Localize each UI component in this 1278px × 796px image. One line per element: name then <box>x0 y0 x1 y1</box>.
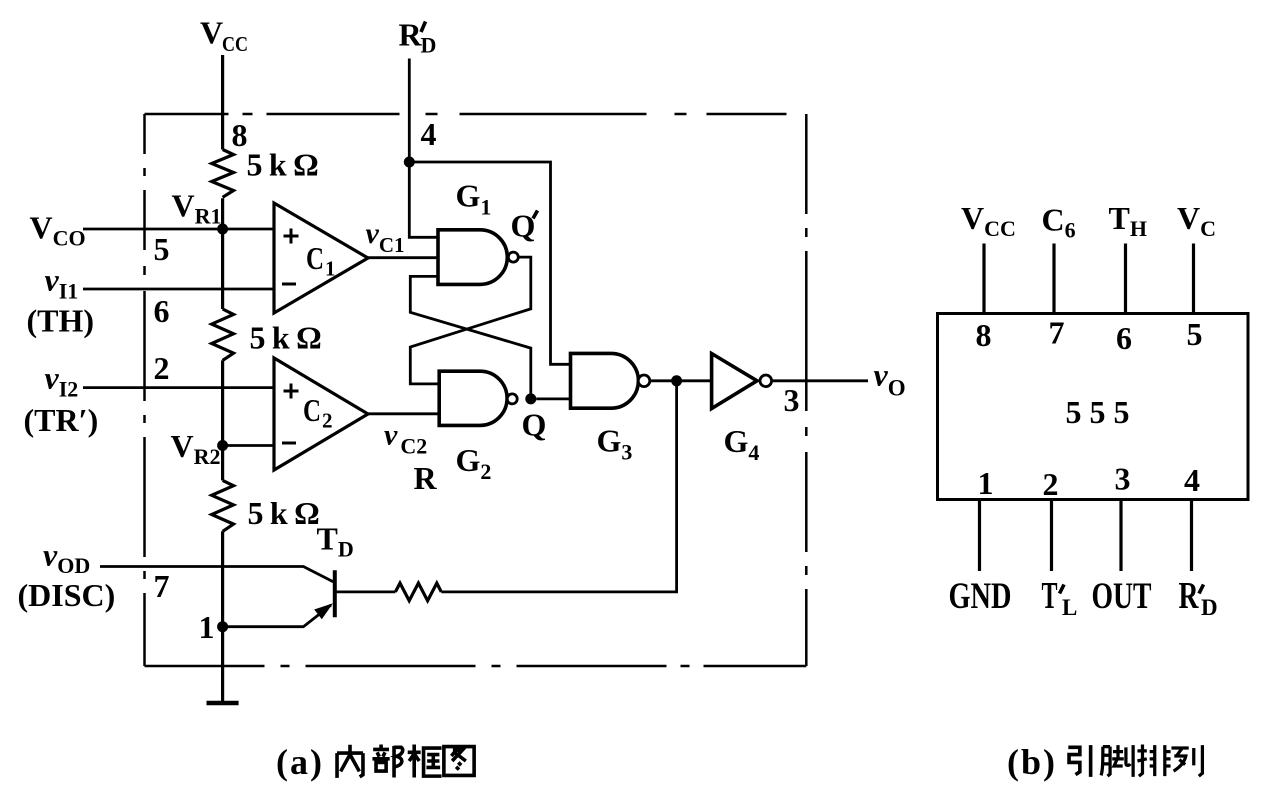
svg-text:2: 2 <box>154 350 170 386</box>
svg-text:D: D <box>421 33 437 58</box>
C6 pin label <box>1042 202 1076 243</box>
pin 2 label <box>154 350 170 386</box>
svg-text:T: T <box>1042 575 1058 617</box>
pin number 2 <box>1043 466 1059 502</box>
caption (b) CJK jiao <box>1101 745 1133 777</box>
pin 1 emitter wire <box>223 605 331 627</box>
output wire vO <box>771 379 868 382</box>
pin 4 stub <box>1190 500 1193 572</box>
caption (a) CJK nei <box>337 745 363 778</box>
GND pin label <box>949 576 1012 617</box>
pin number 6 <box>1116 320 1132 356</box>
vC2 label <box>384 419 427 459</box>
G4 label <box>724 423 760 465</box>
vOD label <box>43 537 90 579</box>
svg-text:5: 5 <box>154 231 170 267</box>
pin number 5 <box>1187 316 1203 352</box>
svg-text:(TR′): (TR′) <box>24 402 99 438</box>
resistor R1 value 5 kOhm <box>247 147 319 183</box>
TD label <box>317 521 354 562</box>
pin 1 label <box>199 609 215 645</box>
C2 plus sign <box>284 384 299 399</box>
G3 output bubble <box>638 375 650 387</box>
pin 7 stub <box>1052 244 1055 314</box>
VR2 to C2 wire <box>223 444 274 447</box>
VCC pin label <box>961 200 1016 241</box>
(TH) label <box>27 303 95 339</box>
svg-text:OUT: OUT <box>1092 576 1152 617</box>
RD' top label <box>399 17 437 58</box>
G2 label <box>456 442 492 484</box>
resistor R1 <box>212 150 234 198</box>
caption (a) CJK tu <box>444 747 474 776</box>
svg-text:5 5 5: 5 5 5 <box>1066 394 1130 430</box>
caption (a) prefix <box>276 742 324 782</box>
svg-text:8: 8 <box>976 317 992 353</box>
pin 5 label <box>154 231 170 267</box>
svg-text:6: 6 <box>1116 320 1132 356</box>
nand gate G2 <box>439 371 507 425</box>
svg-text:4: 4 <box>1184 462 1200 498</box>
svg-text:4: 4 <box>421 116 437 152</box>
resistor R3 value 5 kOhm <box>248 495 320 531</box>
vI1 label <box>45 262 79 304</box>
svg-text:CC: CC <box>222 32 248 56</box>
pin number 3 <box>1115 461 1131 497</box>
C1 minus sign <box>282 283 296 286</box>
pin 7 label <box>154 568 170 604</box>
pin 6 label <box>154 293 170 329</box>
pin number 8 <box>976 317 992 353</box>
resistor R3 <box>212 480 234 531</box>
svg-text:R: R <box>399 17 423 53</box>
pin 3 label <box>784 382 800 418</box>
node VR2 junction <box>217 440 228 451</box>
svg-text:(TH): (TH) <box>27 303 95 339</box>
base lead wire <box>337 591 396 594</box>
(TR') label <box>24 402 99 438</box>
pin 7 wire and collector <box>100 567 333 582</box>
comparator C1 <box>274 203 368 313</box>
svg-text:Q: Q <box>511 208 536 244</box>
inverter G4 <box>712 354 757 409</box>
C2 label <box>303 392 333 433</box>
svg-text:3: 3 <box>1115 461 1131 497</box>
node VR1 junction <box>217 224 228 235</box>
svg-text:(a): (a) <box>276 742 324 782</box>
svg-text:(b): (b) <box>1007 742 1057 782</box>
node VR1 label <box>172 188 222 229</box>
svg-text:R: R <box>414 460 438 496</box>
G3 output wire <box>649 379 711 382</box>
svg-text:1: 1 <box>199 609 215 645</box>
C2 minus sign <box>282 442 296 445</box>
VCC supply rail wire <box>221 55 224 702</box>
pin number 4 <box>1184 462 1200 498</box>
G1 label <box>456 178 492 220</box>
Q cross-coupled wire to G1 <box>410 276 531 399</box>
vC1 label <box>366 217 405 257</box>
VCO label <box>30 210 86 251</box>
ground <box>207 701 239 706</box>
comparator C2 <box>274 358 368 470</box>
caption (a) CJK kuang <box>408 744 442 777</box>
base resistor <box>395 583 441 601</box>
node Q junction <box>525 393 536 404</box>
resistor R2 value 5 kOhm <box>250 320 322 356</box>
VC pin label <box>1177 200 1216 241</box>
pin 5 stub <box>1192 244 1195 314</box>
vC2 output wire <box>368 412 439 415</box>
Q' cross-coupled wire to G2 <box>410 257 531 384</box>
555 package box <box>938 314 1249 500</box>
svg-text:L: L <box>1062 595 1077 620</box>
svg-text:1: 1 <box>978 465 994 501</box>
C1 label <box>306 240 336 281</box>
svg-text:3: 3 <box>784 382 800 418</box>
vO label <box>874 357 906 401</box>
G4 output bubble <box>760 375 772 387</box>
svg-text:5 k Ω: 5 k Ω <box>248 495 320 531</box>
IC boundary dash-dot box <box>145 114 807 666</box>
resistor R2 <box>212 309 234 360</box>
pin 2 wire <box>83 386 274 389</box>
svg-text:2: 2 <box>1043 466 1059 502</box>
vI2 label <box>45 360 79 402</box>
OUT pin label <box>1092 576 1152 617</box>
caption (b) CJK lie <box>1171 745 1202 776</box>
svg-text:2: 2 <box>322 409 333 433</box>
(DISC) label <box>18 577 116 613</box>
G1 output bubble <box>508 252 518 262</box>
Q' label <box>511 208 538 244</box>
555 label <box>1066 394 1130 430</box>
pin number 1 <box>978 465 994 501</box>
TH pin label <box>1109 200 1147 241</box>
nand gate G1 <box>438 230 507 285</box>
svg-text:6: 6 <box>154 293 170 329</box>
pin 6 stub <box>1124 244 1127 314</box>
pin 1 stub <box>978 500 981 572</box>
caption (b) CJK yin <box>1068 745 1090 777</box>
TL' pin label <box>1042 575 1078 620</box>
emitter arrowhead <box>314 603 333 619</box>
pin 2 stub <box>1050 500 1053 572</box>
svg-text:5 k Ω: 5 k Ω <box>250 320 322 356</box>
svg-text:R: R <box>1179 575 1199 617</box>
svg-text:C: C <box>306 240 324 276</box>
caption (b) prefix <box>1007 742 1057 782</box>
caption (b) CJK pai <box>1137 744 1170 776</box>
svg-text:(DISC): (DISC) <box>18 577 116 613</box>
pin 4 node junction <box>404 157 415 168</box>
node VR2 label <box>171 428 221 469</box>
svg-text:Q: Q <box>522 407 547 443</box>
nand gate G3 <box>571 353 639 408</box>
output node junction <box>671 375 682 386</box>
pin 8 stub <box>982 244 985 314</box>
svg-text:5: 5 <box>1187 316 1203 352</box>
VCC label <box>200 15 248 57</box>
RD' pin label <box>1179 575 1218 620</box>
svg-text:7: 7 <box>154 568 170 604</box>
caption (a) CJK bu <box>372 744 402 777</box>
svg-text:GND: GND <box>949 576 1012 617</box>
svg-text:8: 8 <box>232 117 248 153</box>
vC1 output wire <box>368 256 438 259</box>
pin 8 label <box>232 117 248 153</box>
svg-text:D: D <box>1201 595 1218 620</box>
C1 plus sign <box>284 229 299 244</box>
R label <box>414 460 438 496</box>
svg-text:C: C <box>303 392 321 428</box>
pin 5 wire <box>83 228 274 231</box>
G3 label <box>597 423 633 465</box>
pin number 7 <box>1049 315 1065 351</box>
svg-text:1: 1 <box>325 257 336 281</box>
Q to G3 wire <box>536 397 570 400</box>
svg-text:7: 7 <box>1049 315 1065 351</box>
pin 4 to G3 wire <box>409 162 570 364</box>
pin 3 stub <box>1119 500 1122 572</box>
transistor TD base bar <box>333 570 337 617</box>
pin 6 wire <box>83 288 274 291</box>
svg-text:V: V <box>200 15 223 51</box>
feedback wire to transistor base resistor <box>441 381 676 592</box>
Q label <box>522 407 547 443</box>
RD' vertical wire into G1 <box>409 59 438 238</box>
pin 4 label <box>421 116 437 152</box>
svg-text:5 k Ω: 5 k Ω <box>247 147 319 183</box>
G2 output bubble <box>507 394 517 404</box>
pin 1 node junction <box>217 621 228 632</box>
